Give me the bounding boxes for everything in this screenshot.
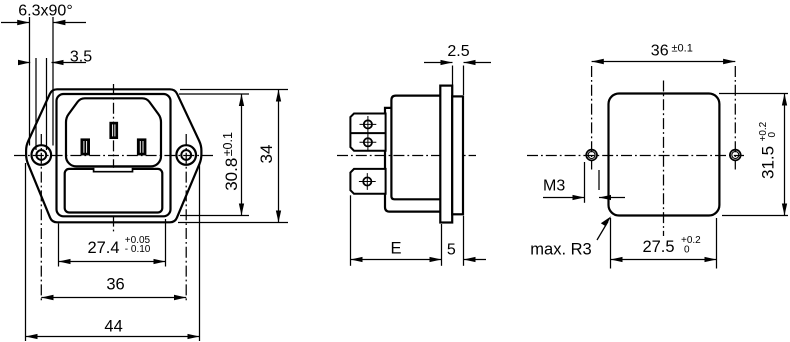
svg-text:- 0.10: - 0.10: [125, 244, 151, 255]
svg-text:±0.1: ±0.1: [672, 42, 693, 54]
svg-text:6.3x90°: 6.3x90°: [18, 3, 72, 20]
svg-text:36: 36: [651, 43, 669, 60]
svg-text:30.8: 30.8: [222, 158, 241, 191]
svg-text:44: 44: [104, 318, 122, 336]
svg-text:E: E: [390, 240, 401, 258]
svg-text:31.5: 31.5: [758, 146, 777, 179]
svg-text:2.5: 2.5: [447, 43, 469, 60]
svg-text:27.4: 27.4: [87, 239, 119, 257]
svg-text:±0.1: ±0.1: [221, 132, 235, 156]
svg-text:34: 34: [257, 145, 276, 164]
svg-text:5: 5: [447, 242, 456, 259]
svg-text:27.5: 27.5: [642, 238, 674, 256]
svg-text:0: 0: [767, 132, 778, 138]
svg-text:M3: M3: [543, 178, 565, 195]
svg-text:36: 36: [106, 275, 124, 293]
svg-text:max. R3: max. R3: [530, 240, 591, 258]
svg-text:0: 0: [684, 245, 690, 256]
